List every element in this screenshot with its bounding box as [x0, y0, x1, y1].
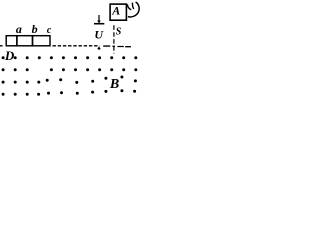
down arrow onto top plate bar	[98, 15, 100, 21]
block 3	[33, 36, 51, 46]
svg-text:B: B	[109, 77, 119, 92]
svg-text:U: U	[94, 28, 104, 42]
ground dashed line right of arrow	[103, 45, 131, 48]
svg-text:c: c	[47, 25, 52, 36]
box A	[110, 4, 126, 20]
S dash-dot vertical line	[113, 25, 115, 53]
svg-text:b: b	[32, 22, 38, 36]
top plate bar	[94, 23, 104, 25]
up arrow onto ground line	[98, 48, 100, 50]
attachment outer curve	[128, 2, 139, 17]
ground dashed line left stub	[0, 45, 3, 47]
attachment hook stroke 2	[132, 3, 133, 9]
block 2	[17, 36, 33, 46]
svg-text:D: D	[4, 48, 15, 63]
ground dashed line right section	[53, 45, 100, 47]
svg-text:a: a	[16, 22, 22, 36]
block 1	[6, 36, 17, 46]
attachment hook stroke 1	[127, 4, 131, 9]
svg-text:A: A	[111, 4, 120, 18]
svg-text:S: S	[116, 27, 122, 38]
magnetic field dot grid	[2, 56, 138, 95]
